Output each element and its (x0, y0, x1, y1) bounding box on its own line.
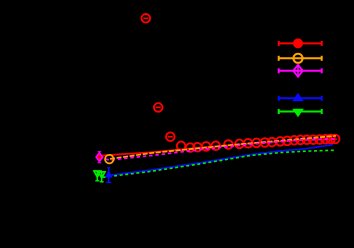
red data point 17 (open circle) (290, 136, 299, 145)
red data point 10 (open circle) (235, 140, 244, 149)
legend entry 3: magenta errorbar sample line (279, 65, 322, 78)
magenta series dashed line (99, 139, 336, 161)
red data point 8 (open circle) (211, 142, 220, 151)
red data point 6 (open circle) (193, 143, 202, 152)
red data point 3 (open circle) (166, 132, 175, 141)
red data point 13 (open circle) (261, 138, 270, 147)
red data point 19 (open circle) (303, 136, 312, 145)
red data point 18 (open circle) (296, 136, 305, 145)
red data point 12 (open circle) (252, 139, 261, 148)
green series dashed line (103, 150, 336, 177)
legend entry 5: green filled triangle-down marker (292, 109, 304, 117)
legend entry 5: green errorbar sample line (279, 109, 322, 114)
blue series line (110, 145, 333, 176)
red series connecting line (101, 139, 337, 155)
green error bar 2 (100, 172, 104, 182)
red data point 11 (open circle) (244, 139, 253, 148)
legend entry 4: blue errorbar sample line (279, 96, 322, 101)
red data point 7 (open circle) (202, 142, 211, 151)
red data point 16 (open circle) (283, 137, 292, 146)
red data point 23 (open circle) (326, 135, 335, 144)
legend entry 1: red errorbar sample line (279, 41, 322, 46)
legend entry 2: orange open circle marker (293, 54, 302, 63)
orange data point (open circle) (105, 155, 114, 164)
red data point 21 (open circle) (315, 135, 324, 144)
red data point 1 (open circle, top outlier) (142, 14, 151, 23)
red data point 9 (open circle) (224, 140, 233, 149)
legend entry 2: orange errorbar sample line (279, 56, 322, 61)
orange series line (110, 136, 336, 159)
red data point 2 (open circle) (154, 103, 163, 112)
red data point 4 (open circle) (177, 142, 186, 151)
magenta data point (open diamond) (96, 153, 103, 162)
legend entry 3: magenta open diamond marker (293, 65, 303, 77)
blue data point (filled triangle up) (105, 170, 113, 178)
green data point 1 (open triangle down) (94, 171, 101, 177)
red data point 24 (open circle) (331, 135, 340, 144)
red first data point (filled circle under diamond) (97, 155, 101, 159)
blue error bar (106, 168, 111, 183)
red data point 22 (open circle) (321, 135, 330, 144)
red data point 15 (open circle) (276, 137, 285, 146)
green error bar 1 (95, 171, 99, 181)
magenta error bar (98, 152, 102, 163)
legend entry 1: red filled circle marker (293, 38, 303, 48)
legend entry 4: blue filled triangle-up marker (292, 93, 304, 101)
red data point 5 (open circle) (186, 143, 195, 152)
red data point 20 (open circle) (309, 135, 318, 144)
green data point 2 (open triangle down) (98, 172, 105, 178)
red data point 14 (open circle) (268, 138, 277, 147)
